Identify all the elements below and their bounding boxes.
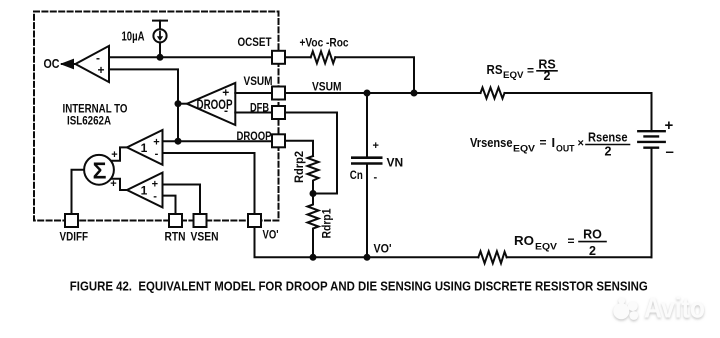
unity-gain amp upper (1) (127, 130, 163, 165)
wire OC inverting input to OCSET pin (109, 56, 272, 58)
svg-text:OCSET: OCSET (238, 35, 273, 49)
pin VO' (248, 214, 261, 227)
junction Rdrp1/VO' net (310, 254, 317, 261)
svg-text:EQV: EQV (503, 70, 524, 81)
svg-text:–: – (666, 144, 674, 161)
svg-text:+: + (152, 179, 158, 191)
svg-text:VSEN: VSEN (191, 230, 219, 244)
current source 10uA (153, 21, 167, 58)
pin RTN (169, 214, 182, 227)
wire RS to battery (505, 92, 652, 94)
svg-text:1: 1 (141, 184, 148, 198)
pin DROOP (272, 134, 285, 147)
svg-text:×: × (578, 138, 584, 150)
wire battery bottom lead to RO (651, 148, 653, 258)
svg-text:Σ: Σ (93, 158, 107, 184)
svg-text:Vrsense: Vrsense (470, 136, 513, 150)
svg-text:+: + (153, 136, 159, 148)
IC boundary dashed box ISL6262A (34, 12, 279, 221)
svg-text:-: - (374, 172, 378, 184)
wire DROOP- to DFB pin (235, 112, 272, 114)
wire Roc to VSUM net (335, 57, 414, 93)
svg-text:VO': VO' (374, 242, 392, 256)
svg-text:1: 1 (141, 141, 148, 155)
svg-text:+: + (222, 86, 229, 100)
svg-text:+: + (111, 149, 117, 161)
svg-text:=: = (527, 64, 534, 78)
svg-text:VDIFF: VDIFF (60, 230, 89, 244)
wire DROOP pin to Rdrp2 (285, 141, 313, 156)
OC output arrow (60, 59, 76, 70)
wire VO' pin down to VO' net (255, 227, 479, 257)
op-amp OC comparator (75, 46, 109, 82)
label INTERNAL TO ISL6262A (63, 102, 128, 128)
svg-text:-: - (153, 190, 157, 202)
junction DROOP amp output node (175, 100, 182, 107)
resistor Roc (+Voc -Roc) (311, 51, 336, 63)
pin VSEN (194, 214, 207, 227)
pin VDIFF (65, 214, 78, 227)
svg-text:VN: VN (387, 156, 404, 170)
svg-text:OUT: OUT (556, 144, 575, 155)
svg-text:VO': VO' (263, 228, 279, 242)
svg-text:DFB: DFB (250, 101, 269, 115)
svg-text:+Voc -Roc: +Voc -Roc (300, 36, 349, 50)
svg-text:10µA: 10µA (122, 29, 145, 44)
svg-text:2: 2 (589, 244, 596, 258)
svg-text:VSUM: VSUM (244, 74, 273, 88)
wire OC non-inverting input down to DROOP net (109, 69, 178, 141)
wire sigma output to VDIFF pin (72, 170, 91, 214)
svg-text:EQV: EQV (513, 144, 536, 155)
svg-text:ISL6262A: ISL6262A (67, 114, 111, 128)
capacitor Cn bottom lead (366, 165, 368, 257)
wire OCSET pin to resistor Roc (285, 56, 311, 58)
resistor Rdrp1 (308, 194, 319, 258)
junction current source / OC- wire (157, 54, 164, 61)
resistor RS_EQV (481, 88, 505, 99)
wire sigma to unity amp 2 (106, 179, 127, 190)
wire RO to battery negative (507, 256, 652, 258)
svg-text:-: - (224, 104, 228, 118)
capacitor Cn (352, 158, 381, 164)
wire sigma to unity amp 1 (106, 147, 127, 160)
svg-text:Cn: Cn (350, 168, 363, 182)
svg-text:RTN: RTN (165, 230, 186, 244)
svg-text:+: + (110, 178, 116, 190)
svg-text:+: + (665, 117, 674, 134)
wire VSUM net (285, 92, 481, 94)
wire DFB pin loop to Rdrp junction (285, 113, 337, 194)
wire upper amp - to VO' pin (163, 153, 255, 214)
wire upper amp + to DROOP pin (163, 140, 273, 142)
pin OCSET (272, 51, 285, 64)
wire DROOP amp output (178, 103, 187, 105)
junction DROOP net node (175, 138, 182, 145)
label Vrsense_EQV = I_OUT x Rsense/2 (470, 131, 628, 159)
label RO_EQV = RO/2 (514, 228, 602, 259)
svg-text:=: = (568, 234, 575, 248)
summing node sigma (84, 155, 114, 185)
op-amp DROOP (187, 83, 235, 125)
svg-text:RO: RO (583, 228, 602, 242)
svg-text:EQV: EQV (535, 242, 558, 253)
junction Rdrp2/Rdrp1/DFB (310, 190, 317, 197)
junction Cn/VO' net (364, 254, 371, 261)
wire lower amp + to VSEN pin (163, 185, 201, 215)
wire battery top lead (651, 93, 653, 131)
pin DFB (272, 106, 285, 119)
svg-text:RO: RO (514, 234, 534, 248)
svg-text:Rdrp1: Rdrp1 (320, 208, 334, 238)
svg-text:FIGURE 42. EQUIVALENT MODEL F: FIGURE 42. EQUIVALENT MODEL FOR DROOP AN… (70, 279, 648, 294)
svg-text:=: = (540, 136, 547, 150)
svg-text:-: - (155, 148, 159, 160)
resistor RO_EQV (478, 251, 506, 263)
svg-text:I: I (552, 135, 556, 150)
capacitor Cn top lead (366, 93, 368, 156)
svg-text:Rdrp2: Rdrp2 (292, 151, 306, 183)
label RS_EQV = RS/2 (487, 58, 556, 84)
resistor Rdrp2 (308, 156, 319, 194)
junction VSUM/Cn (364, 90, 371, 97)
svg-text:+: + (98, 63, 105, 77)
svg-text:DROOP: DROOP (237, 129, 272, 143)
svg-text:Rsense: Rsense (588, 131, 628, 145)
battery Vrsense_EQV (638, 131, 664, 148)
svg-text:RS: RS (487, 63, 503, 77)
svg-text:Avito: Avito (644, 293, 705, 325)
svg-text:+: + (373, 140, 379, 152)
pin VSUM (272, 87, 285, 100)
wire DROOP+ to VSUM pin (235, 92, 272, 94)
svg-text:VSUM: VSUM (312, 80, 342, 94)
junction VSUM/Roc (411, 90, 418, 97)
svg-text:OC: OC (44, 56, 61, 71)
wire lower amp - to RTN pin (163, 196, 176, 214)
unity-gain amp lower (1) (127, 173, 163, 208)
svg-text:2: 2 (605, 145, 612, 159)
